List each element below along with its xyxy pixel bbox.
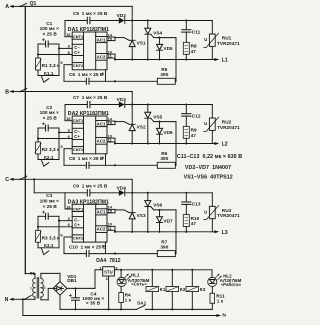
node N (neutral input) bbox=[5, 297, 23, 303]
resistor R4 1 к bbox=[119, 286, 132, 309]
svg-text:100 мк ×: 100 мк × bbox=[40, 26, 60, 31]
wire phase C feed bbox=[20, 179, 132, 193]
svg-text:47: 47 bbox=[191, 133, 197, 138]
capacitor C5 bbox=[73, 11, 108, 24]
capacitor C11 bbox=[182, 21, 201, 43]
svg-text:R1 3,3 к: R1 3,3 к bbox=[42, 63, 60, 68]
gate wire DA2 AC1 bbox=[115, 121, 176, 123]
svg-text:× 25 В: × 25 В bbox=[43, 116, 58, 121]
wire C2 right leg bbox=[58, 128, 60, 133]
svg-text:К1: К1 bbox=[160, 287, 166, 292]
gate wire DA3 AC1 bbox=[115, 209, 176, 211]
svg-text:C: C bbox=[5, 177, 9, 183]
svg-text:SA1: SA1 bbox=[137, 300, 147, 305]
svg-text:L1: L1 bbox=[222, 58, 228, 64]
svg-text:C11: C11 bbox=[192, 29, 201, 34]
svg-text:«Сеть»: «Сеть» bbox=[131, 282, 147, 287]
svg-text:390: 390 bbox=[160, 245, 168, 250]
svg-text:L2: L2 bbox=[222, 142, 228, 148]
svg-text:C+: C+ bbox=[74, 134, 80, 139]
wire C3 right leg bbox=[58, 216, 60, 221]
relay coil K3 bbox=[186, 270, 206, 310]
pin 3 DA1 bbox=[59, 44, 72, 49]
value label C11-C13 bbox=[177, 154, 242, 160]
svg-text:AC2: AC2 bbox=[97, 227, 106, 232]
pin 9 DA2 CNT2 bbox=[60, 144, 72, 165]
svg-text:L3: L3 bbox=[222, 230, 228, 236]
pins 10 11 DA2 AC2 bbox=[107, 133, 115, 143]
diode VD7 bbox=[157, 210, 174, 232]
diode VD6 bbox=[157, 122, 174, 144]
svg-text:N: N bbox=[5, 297, 9, 303]
node C (phase input) bbox=[5, 177, 20, 183]
svg-text:CNT2: CNT2 bbox=[73, 147, 84, 152]
svg-text:AC2: AC2 bbox=[97, 54, 106, 59]
resistor R5 390 bbox=[157, 38, 176, 85]
pins 10 11 DA1 AC2 bbox=[107, 49, 115, 59]
svg-text:16: 16 bbox=[66, 204, 71, 209]
capacitor C12 bbox=[182, 105, 201, 127]
transformer T1 bbox=[25, 271, 45, 298]
pin 6 DA1 bbox=[38, 50, 72, 55]
diode VD4 bbox=[117, 185, 127, 196]
svg-text:15: 15 bbox=[108, 120, 113, 125]
relay coil K2 bbox=[166, 270, 186, 310]
node L3 (output) bbox=[212, 230, 228, 236]
resistor R8 47 bbox=[183, 42, 197, 59]
svg-text:TVR20471: TVR20471 bbox=[217, 41, 240, 46]
svg-text:К2: К2 bbox=[180, 287, 186, 292]
pins 14 15 DA2 AC1 bbox=[107, 116, 115, 125]
svg-text:C2: C2 bbox=[46, 105, 52, 110]
resistor R11 1 к bbox=[210, 287, 225, 310]
thyristor VS2 bbox=[124, 105, 146, 144]
wire control node ch DA3 bbox=[64, 253, 157, 255]
svg-text:VS4: VS4 bbox=[153, 30, 162, 35]
diode VD3 bbox=[117, 97, 127, 108]
pin 3 DA3 bbox=[59, 216, 72, 221]
value label VS1-VS6 bbox=[184, 175, 233, 181]
wire C1 right leg bbox=[58, 44, 60, 49]
svg-text:× 25 В: × 25 В bbox=[43, 32, 58, 37]
resistor R1 3,3 к (variable) bbox=[35, 58, 60, 70]
capacitor C7 bbox=[73, 95, 108, 108]
pin 3 DA2 bbox=[59, 128, 72, 133]
svg-text:VS1–VS6 40TPS12: VS1–VS6 40TPS12 bbox=[184, 175, 233, 181]
svg-text:C9 1 мк × 25 В: C9 1 мк × 25 В bbox=[73, 184, 108, 189]
svg-text:CNT2: CNT2 bbox=[73, 63, 84, 68]
svg-text:C1: C1 bbox=[46, 21, 52, 26]
pin 16 DA3 CNT1 bbox=[65, 193, 72, 210]
capacitor C1 bbox=[38, 21, 59, 47]
thyristor VS6 bbox=[145, 193, 163, 232]
node L1 (output) bbox=[212, 58, 228, 64]
pin 6 DA3 bbox=[38, 222, 72, 227]
capacitor C6 bbox=[69, 72, 104, 84]
svg-text:R3 3,3 к: R3 3,3 к bbox=[42, 236, 60, 241]
svg-text:C13: C13 bbox=[192, 202, 201, 207]
svg-text:VS2: VS2 bbox=[137, 125, 146, 130]
LED HL1 АЛ307БМ Сеть bbox=[117, 270, 150, 287]
svg-text:AC1: AC1 bbox=[97, 121, 106, 126]
svg-text:16: 16 bbox=[66, 32, 71, 37]
svg-text:VD2: VD2 bbox=[117, 13, 127, 18]
wire bottom rail ch DA3 bbox=[114, 231, 212, 233]
thyristor VS5 bbox=[145, 105, 163, 144]
svg-text:C+: C+ bbox=[74, 222, 80, 227]
wire top rail ch DA3 bbox=[65, 192, 212, 194]
gate wire DA1 AC1 bbox=[115, 37, 176, 39]
svg-text:C12: C12 bbox=[192, 113, 201, 118]
svg-text:15: 15 bbox=[108, 209, 113, 214]
svg-text:VD4: VD4 bbox=[117, 185, 127, 190]
capacitor C10 bbox=[69, 244, 107, 256]
svg-text:15: 15 bbox=[108, 36, 113, 41]
svg-text:TVR20471: TVR20471 bbox=[217, 213, 240, 218]
svg-text:AC1: AC1 bbox=[97, 37, 106, 42]
svg-text:R2 3,3 к: R2 3,3 к bbox=[42, 147, 60, 152]
pin 9 DA3 CNT2 bbox=[60, 232, 72, 253]
svg-text:1 к: 1 к bbox=[217, 298, 224, 303]
wire bottom rail ch DA2 bbox=[114, 142, 212, 144]
svg-text:390: 390 bbox=[160, 156, 168, 161]
svg-text:VS3: VS3 bbox=[137, 213, 146, 218]
svg-text:C7 1 мк × 25 В: C7 1 мк × 25 В bbox=[73, 95, 108, 100]
wire N rail to loads bbox=[23, 313, 227, 319]
resistor R9 47 bbox=[183, 126, 197, 143]
wire phase A feed bbox=[20, 6, 132, 20]
svg-text:DB1: DB1 bbox=[67, 278, 77, 283]
svg-text:47: 47 bbox=[191, 49, 197, 54]
node A (phase input) bbox=[5, 4, 20, 10]
svg-text:«Работа»: «Работа» bbox=[221, 282, 242, 287]
relay contact К2.1 bbox=[38, 132, 59, 166]
svg-text:TVR20471: TVR20471 bbox=[217, 125, 240, 130]
varistor RU2 TVR20471 bbox=[204, 105, 241, 144]
wire bridge plus output bbox=[67, 270, 103, 290]
thyristor VS3 bbox=[124, 193, 146, 232]
wire C3 left leg bbox=[37, 216, 39, 230]
relay coil K1 bbox=[146, 270, 166, 310]
wire rail jog C bbox=[33, 178, 65, 193]
op-amp DA2 (phase regulator IC) bbox=[68, 111, 109, 154]
svg-text:VD5: VD5 bbox=[163, 46, 173, 51]
resistor R10 47 bbox=[183, 215, 199, 232]
svg-text:C5 1 мк × 25 В: C5 1 мк × 25 В bbox=[73, 11, 108, 16]
svg-text:B: B bbox=[5, 89, 9, 95]
op-amp DA3 (phase regulator IC) bbox=[68, 200, 109, 243]
varistor RU3 TVR20471 bbox=[204, 193, 241, 232]
capacitor C4 1000 мк bbox=[69, 289, 104, 310]
node L2 (output) bbox=[212, 142, 228, 148]
capacitor C2 bbox=[38, 105, 59, 131]
svg-text:CNT1: CNT1 bbox=[73, 34, 84, 39]
svg-text:U: U bbox=[204, 121, 207, 126]
svg-text:C11–C13 0,22 мк × 630 В: C11–C13 0,22 мк × 630 В bbox=[177, 154, 242, 160]
pin 8 DA2 bbox=[102, 154, 106, 166]
switch Q1 pole (C) bbox=[19, 176, 26, 180]
wire C2 left leg bbox=[37, 128, 39, 142]
svg-text:47: 47 bbox=[191, 221, 197, 226]
capacitor C3 bbox=[38, 193, 59, 219]
svg-text:HL1: HL1 bbox=[131, 272, 140, 277]
svg-text:VD6: VD6 bbox=[163, 130, 173, 135]
resistor R6 390 bbox=[157, 122, 176, 169]
switch Q1 pole (A) bbox=[19, 1, 36, 7]
pin 9 DA1 CNT2 bbox=[60, 60, 72, 81]
wire bottom rail ch DA1 bbox=[114, 58, 212, 60]
wire control node ch DA1 bbox=[64, 80, 157, 82]
value label VD2-VD7 bbox=[185, 165, 231, 171]
op-amp DA1 (phase regulator IC) bbox=[68, 27, 109, 70]
capacitor C13 bbox=[182, 193, 201, 215]
wire bridge minus output bbox=[59, 295, 61, 309]
svg-text:AC2: AC2 bbox=[97, 138, 106, 143]
resistor R7 390 bbox=[157, 210, 176, 257]
svg-text:DA4 7812: DA4 7812 bbox=[96, 258, 121, 264]
thyristor VS4 bbox=[145, 21, 163, 60]
pin 16 DA2 CNT1 bbox=[65, 105, 72, 122]
thyristor VS1 bbox=[124, 21, 146, 60]
pins 10 11 DA3 AC2 bbox=[107, 222, 115, 232]
svg-text:CNT2: CNT2 bbox=[73, 236, 84, 241]
pins 14 15 DA3 AC1 bbox=[107, 205, 115, 214]
resistor R2 3,3 к (variable) bbox=[35, 142, 60, 154]
svg-text:1 к: 1 к bbox=[125, 298, 132, 303]
wire C1 left leg bbox=[37, 44, 39, 58]
svg-text:100 мк ×: 100 мк × bbox=[40, 199, 60, 204]
wire top rail ch DA2 bbox=[65, 103, 212, 105]
svg-text:VD7: VD7 bbox=[163, 218, 173, 223]
switch Q1 pole (B) bbox=[19, 88, 26, 92]
diode VD2 bbox=[117, 13, 127, 24]
switch Q1 pole (N) bbox=[24, 295, 31, 300]
svg-text:390: 390 bbox=[160, 72, 168, 77]
wire T1 secondary to bridge bbox=[41, 273, 60, 299]
wire top rail ch DA1 bbox=[65, 19, 212, 21]
node B (phase input) bbox=[5, 89, 20, 95]
voltage regulator DA4 7812 bbox=[96, 258, 121, 310]
svg-text:× 35 В: × 35 В bbox=[86, 301, 101, 306]
wire DC minus rail bbox=[60, 308, 212, 310]
wire N to transformer bbox=[22, 297, 35, 300]
wire control node ch DA2 bbox=[64, 164, 157, 166]
svg-text:VS1: VS1 bbox=[137, 41, 146, 46]
svg-text:C8 1 мк × 25 В: C8 1 мк × 25 В bbox=[69, 156, 104, 161]
capacitor C8 bbox=[69, 156, 104, 168]
svg-text:VS5: VS5 bbox=[153, 114, 162, 119]
relay contact К1.1 bbox=[38, 48, 59, 82]
svg-text:16: 16 bbox=[66, 116, 71, 121]
capacitor C9 bbox=[73, 184, 108, 197]
resistor R3 3,3 к (variable) bbox=[35, 230, 60, 242]
svg-text:CNT1: CNT1 bbox=[73, 118, 84, 123]
pins 14 15 DA1 AC1 bbox=[107, 32, 115, 41]
relay contact К3.1 bbox=[38, 221, 59, 255]
LED HL2 АЛ307БМ Работа bbox=[208, 270, 242, 287]
rectifier VD1 DB107 (bridge) bbox=[53, 274, 77, 295]
svg-text:U: U bbox=[204, 37, 207, 42]
svg-text:N: N bbox=[222, 313, 226, 319]
svg-text:C+: C+ bbox=[74, 50, 80, 55]
svg-text:I: I bbox=[30, 286, 31, 291]
wire N tap down bbox=[22, 299, 24, 315]
diode VD5 bbox=[157, 38, 174, 60]
svg-text:CNT1: CNT1 bbox=[73, 207, 84, 212]
varistor RU1 TVR20471 bbox=[204, 21, 241, 60]
svg-text:VD3: VD3 bbox=[117, 97, 127, 102]
svg-text:VS6: VS6 bbox=[153, 203, 162, 208]
svg-text:AC1: AC1 bbox=[97, 210, 106, 215]
pin 8 DA3 bbox=[102, 242, 106, 254]
svg-text:C6 1 мк × 25 В: C6 1 мк × 25 В bbox=[69, 72, 104, 77]
wire main bus phase A bbox=[24, 6, 26, 273]
svg-text:C10 1 мк × 25 В: C10 1 мк × 25 В bbox=[69, 244, 107, 249]
switch SA1 bbox=[136, 300, 146, 309]
svg-text:C3: C3 bbox=[46, 193, 52, 198]
svg-text:× 25 В: × 25 В bbox=[43, 204, 58, 209]
svg-text:II: II bbox=[43, 285, 45, 290]
wire phase B feed bbox=[20, 92, 132, 105]
pin 6 DA2 bbox=[38, 134, 72, 139]
svg-text:A: A bbox=[5, 4, 9, 10]
svg-text:100 мк ×: 100 мк × bbox=[40, 110, 60, 115]
svg-text:VD2–VD7 1N4007: VD2–VD7 1N4007 bbox=[185, 165, 231, 171]
wire +12V rail bbox=[114, 269, 212, 271]
svg-text:STU: STU bbox=[104, 269, 113, 274]
pin 16 DA1 CNT1 bbox=[65, 21, 72, 38]
svg-text:К3: К3 bbox=[200, 287, 206, 292]
svg-text:U: U bbox=[204, 209, 207, 214]
pin 8 DA1 bbox=[102, 70, 106, 82]
